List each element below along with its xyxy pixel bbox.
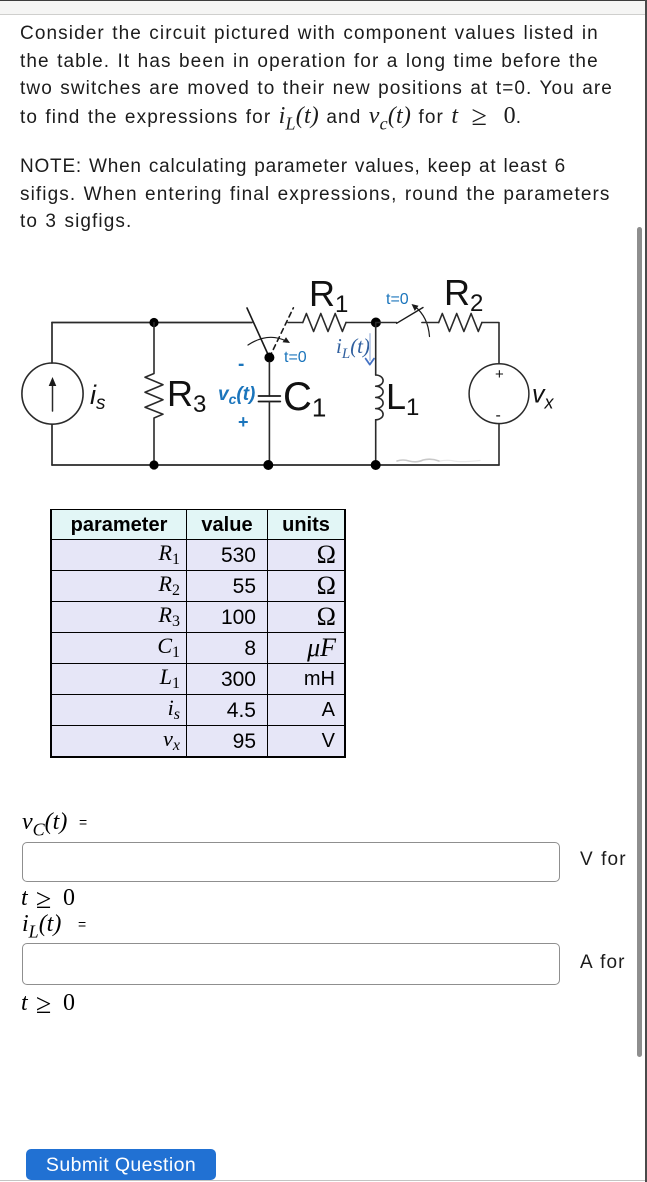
svg-text:C1: C1 (283, 375, 326, 423)
resistor R1 (horizontal zigzag) (303, 314, 346, 332)
scrollbar thumb (637, 227, 642, 1057)
wire: bottom horizontal (52, 464, 499, 466)
node: switch pole / top of C1 (264, 353, 274, 363)
switch S2 wire from node (376, 322, 397, 324)
svg-text:t=0: t=0 (284, 349, 307, 366)
capacitor C1 plates (268, 362, 270, 396)
wire: Vx bottom to bottom rail (498, 424, 500, 465)
svg-text:t=0: t=0 (386, 291, 409, 308)
svg-text:iL(t): iL(t) (336, 334, 370, 362)
switch S1 blade (solid) (247, 308, 269, 358)
switch S2 blade (397, 308, 423, 324)
faint eraser scribble near bottom wire (397, 459, 439, 462)
wire: left vertical top (51, 323, 53, 364)
right window edge (645, 0, 647, 1182)
arrow iL direction (369, 334, 371, 360)
answer label vC(t)= (22, 808, 87, 840)
node: top of R3 (149, 318, 158, 327)
switch S2 contact wire (422, 322, 439, 324)
current source Is circle (22, 363, 83, 424)
voltage source Vx circle (469, 364, 529, 424)
input box 2 (22, 943, 560, 985)
bottom hairline (0, 1180, 647, 1181)
A for (580, 952, 626, 974)
switch S1 new position (dashed) (269, 308, 293, 358)
resistor R2 (horizontal zigzag) (439, 314, 482, 332)
submit button (26, 1149, 216, 1180)
top chrome strip (0, 0, 647, 1)
input box 1 (22, 842, 560, 882)
paragraph 2 (NOTE) (20, 153, 640, 236)
resistor R3 (vertical zigzag) (145, 323, 163, 466)
svg-text:R2: R2 (444, 272, 483, 317)
svg-text:+: + (238, 412, 249, 432)
svg-text:vc(t): vc(t) (218, 384, 255, 407)
paragraph 1 (20, 20, 640, 138)
inductor L1 (vertical coil) (375, 323, 377, 376)
svg-text:+: + (495, 366, 504, 383)
V for (580, 849, 627, 871)
node: R1/L1/S2 junction (371, 318, 381, 328)
answer label iL(t)= (22, 910, 86, 942)
svg-text:-: - (238, 354, 244, 375)
circuit schematic (0, 265, 620, 480)
wire: top left horizontal (52, 322, 252, 324)
node: bottom of R3 (149, 460, 158, 469)
svg-text:L1: L1 (386, 376, 419, 421)
node: bottom of C1 (263, 460, 273, 470)
svg-text:R1: R1 (309, 273, 348, 318)
switch S1 motion arc (248, 337, 286, 345)
svg-text:vx: vx (532, 381, 555, 413)
svg-text:R3: R3 (167, 373, 206, 418)
node: bottom of L1 (371, 460, 381, 470)
svg-text:-: - (496, 407, 501, 424)
current source arrow (52, 382, 54, 411)
wire: R2 to right corner (482, 323, 499, 364)
wire: R1 to node (346, 322, 376, 324)
t >= 0 (first) (21, 884, 75, 916)
svg-text:is: is (90, 380, 106, 414)
wire: left vertical bottom (51, 424, 53, 465)
wire: from switch to R1 (288, 322, 303, 324)
switch S2 motion arc with arrow (415, 307, 430, 337)
t >= 0 (second) (21, 989, 75, 1021)
